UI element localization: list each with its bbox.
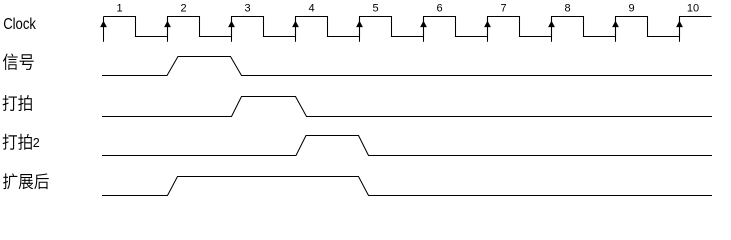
clock rising-edge arrow 1	[100, 17, 107, 42]
clock waveform wire	[104, 17, 712, 37]
svg-text:Clock: Clock	[3, 16, 36, 33]
svg-text:2: 2	[180, 3, 186, 15]
clock cycle number 3	[244, 3, 250, 15]
label 打拍2 (latch 2) hanzi	[3, 134, 32, 150]
clock cycle number 10	[687, 3, 699, 15]
信号 signal waveform wire	[102, 57, 712, 76]
clock rising-edge arrow 10	[676, 17, 683, 42]
clock cycle number 9	[628, 3, 634, 15]
svg-text:7: 7	[500, 3, 506, 15]
svg-text:9: 9	[628, 3, 634, 15]
svg-text:10: 10	[687, 3, 699, 15]
clock cycle number 5	[372, 3, 378, 15]
clock rising-edge arrow 8	[548, 17, 555, 42]
clock rising-edge arrow 4	[292, 17, 299, 42]
svg-text:2: 2	[33, 136, 40, 150]
clock rising-edge arrow 3	[228, 17, 235, 42]
svg-text:8: 8	[564, 3, 570, 15]
clock cycle number 6	[436, 3, 442, 15]
svg-text:1: 1	[116, 3, 122, 15]
clock cycle number 7	[500, 3, 506, 15]
clock cycle number 1	[116, 3, 122, 15]
clock rising-edge arrow 6	[420, 17, 427, 42]
label Clock	[3, 16, 36, 33]
打拍2 waveform wire	[102, 136, 712, 156]
clock cycle number 2	[180, 3, 186, 15]
svg-text:4: 4	[308, 3, 314, 15]
打拍 waveform wire	[102, 97, 712, 117]
label 打拍2 digit 2	[33, 136, 40, 150]
label 信号 (signal)	[3, 54, 34, 70]
clock rising-edge arrow 5	[356, 17, 363, 42]
svg-text:5: 5	[372, 3, 378, 15]
svg-text:3: 3	[244, 3, 250, 15]
clock rising-edge arrow 9	[612, 17, 619, 42]
label 打拍 (latch)	[3, 95, 32, 111]
label 扩展后 (after extension)	[3, 173, 49, 189]
svg-text:6: 6	[436, 3, 442, 15]
clock rising-edge arrow 2	[164, 17, 171, 42]
clock cycle number 4	[308, 3, 314, 15]
clock rising-edge arrow 7	[484, 17, 491, 42]
clock cycle number 8	[564, 3, 570, 15]
扩展后 waveform wire	[102, 177, 712, 196]
